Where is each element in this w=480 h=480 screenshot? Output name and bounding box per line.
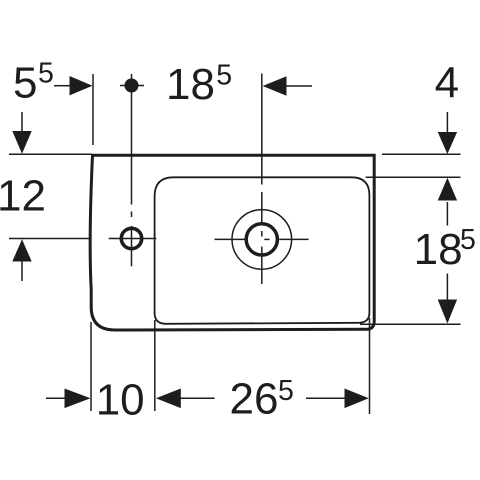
svg-text:10: 10 (96, 376, 145, 425)
extension line right bowl bottom (18.5 dim) (360, 323, 461, 325)
tap hole (121, 228, 141, 248)
svg-text:4: 4 (435, 59, 459, 108)
svg-text:12: 12 (0, 172, 46, 221)
basin outer outline (90, 155, 374, 330)
drain centerline vertical (261, 74, 263, 185)
arrow 12 pointing up (12, 239, 31, 261)
svg-text:5: 5 (13, 59, 37, 108)
extension line bottom left (10 dim) (90, 322, 92, 411)
basin inner bowl outline (155, 177, 370, 323)
dim line 18.5 right upper (446, 202, 448, 226)
dim line 18.5 right lower (446, 274, 448, 300)
arrow 26.5 pointing left (156, 389, 181, 409)
extension line right bowl top (4/18.5 dim) (366, 176, 461, 178)
drain inner circle (246, 224, 277, 255)
tap hole crosshair vertical (131, 226, 133, 266)
tap dot crosshair horizontal (120, 85, 144, 87)
drain outer circle (232, 210, 292, 270)
dim line 5.5 tail (54, 85, 70, 87)
extension line bottom bowl left (10/26.5 dim) (154, 320, 156, 411)
arrow 4 pointing down (438, 132, 457, 154)
extension line left top (12 dim) (9, 153, 92, 155)
arrow 26.5 pointing right (345, 389, 369, 409)
arrow 18.5 top pointing left (263, 76, 287, 95)
tap hole position dot (125, 79, 139, 93)
dim line 26.5 right segment (306, 397, 345, 399)
dim line 10 left tail (46, 397, 65, 399)
extension line basin left edge (5.5 dim) (92, 74, 94, 145)
tap hole centerline (131, 74, 133, 205)
svg-text:26: 26 (230, 375, 279, 424)
arrow 5.5 pointing right (70, 76, 93, 95)
dim line 26.5 left segment (180, 397, 215, 399)
arrow 18.5 right pointing up (438, 178, 457, 201)
drain crosshair horizontal (215, 238, 246, 240)
dim line 12 top (21, 112, 23, 132)
svg-text:5: 5 (460, 224, 476, 256)
svg-text:18: 18 (414, 225, 463, 274)
dim line 4 top (446, 112, 448, 133)
svg-text:5: 5 (216, 60, 232, 92)
dim line 18.5 top tail (286, 85, 312, 87)
svg-text:18: 18 (166, 60, 215, 109)
svg-text:5: 5 (278, 375, 294, 407)
dim line 12 bottom (21, 260, 23, 281)
svg-text:5: 5 (38, 58, 54, 90)
extension line left middle (12 dim) (9, 238, 91, 240)
tap hole crosshair horizontal (109, 238, 157, 240)
arrow 18.5 right pointing down (438, 300, 457, 324)
arrow 12 pointing down (12, 131, 31, 154)
extension line bottom bowl right (26.5 dim) (369, 318, 371, 414)
extension line right top (4 dim) (382, 153, 461, 155)
arrow 10 pointing right (65, 389, 91, 409)
